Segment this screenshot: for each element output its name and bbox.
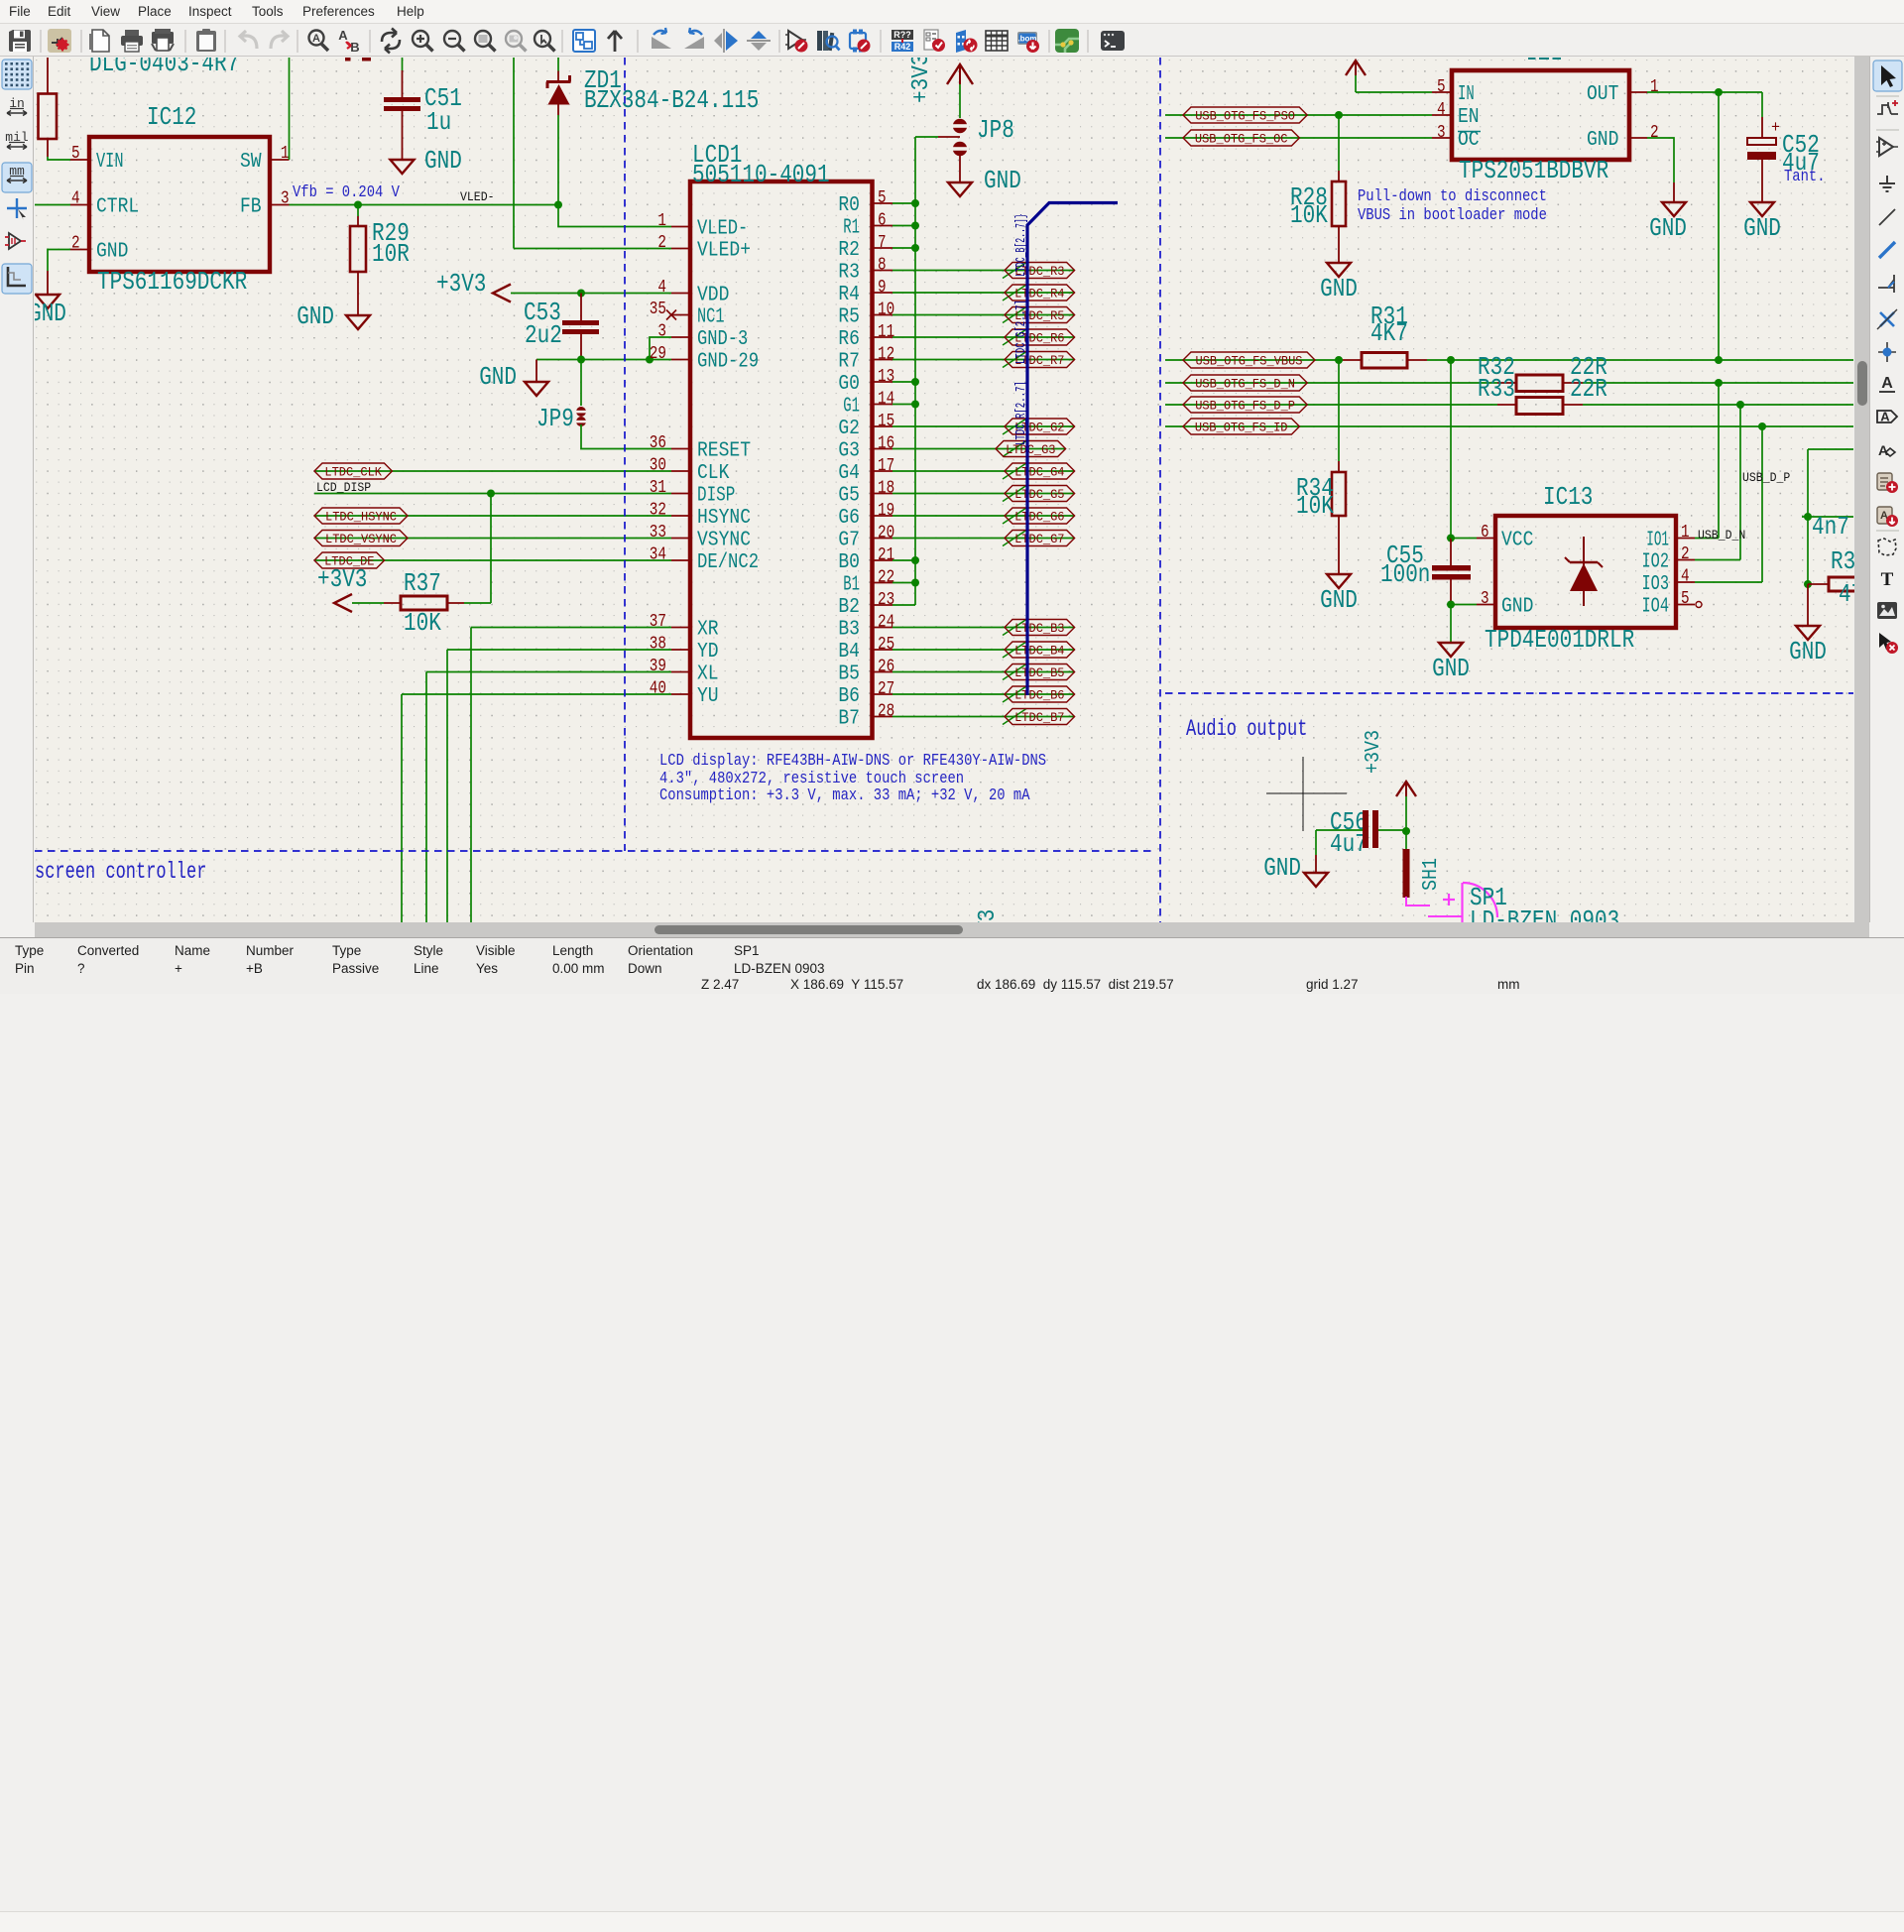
svg-text:LTDC_B4: LTDC_B4: [1014, 644, 1065, 659]
svg-text:GND: GND: [1789, 637, 1827, 666]
svg-text:GND: GND: [1320, 274, 1358, 303]
svg-text:22R: 22R: [1570, 374, 1607, 404]
svg-text:R4: R4: [838, 284, 860, 306]
svg-text:LTDC_B7: LTDC_B7: [1014, 710, 1064, 725]
svg-text:+3V3: +3V3: [908, 58, 935, 103]
svg-text:20: 20: [878, 524, 894, 543]
svg-text:11: 11: [878, 322, 894, 342]
svg-text:R7: R7: [838, 351, 860, 374]
svg-text:RESET: RESET: [697, 440, 751, 463]
svg-text:YU: YU: [697, 685, 719, 708]
svg-text:SH1: SH1: [1420, 858, 1443, 891]
svg-text:XL: XL: [697, 664, 719, 686]
svg-text:GND-29: GND-29: [697, 351, 759, 374]
svg-text:VBUS in bootloader mode: VBUS in bootloader mode: [1358, 205, 1547, 224]
svg-text:GND: GND: [479, 362, 517, 392]
svg-text:7: 7: [878, 233, 887, 253]
svg-text:18: 18: [878, 479, 894, 499]
svg-text:31: 31: [650, 478, 666, 498]
svg-text:HSYNC: HSYNC: [697, 507, 751, 530]
svg-text:13: 13: [878, 367, 894, 387]
svg-text:1: 1: [281, 144, 290, 164]
svg-text:10: 10: [878, 301, 894, 320]
svg-text:R35: R35: [1831, 546, 1854, 576]
svg-text:14: 14: [878, 390, 894, 410]
svg-text:JP9: JP9: [536, 404, 574, 433]
svg-text:CLK: CLK: [697, 462, 730, 485]
svg-text:B6: B6: [838, 685, 860, 708]
svg-text:GND: GND: [1743, 213, 1781, 243]
svg-text:R5: R5: [838, 306, 860, 329]
svg-text:USB_OTG_FS_OC: USB_OTG_FS_OC: [1195, 132, 1288, 147]
svg-text:VLED+: VLED+: [697, 240, 751, 263]
svg-text:FB: FB: [240, 196, 262, 219]
svg-text:10K: 10K: [1290, 200, 1328, 230]
svg-text:2: 2: [1650, 123, 1659, 143]
svg-text:33: 33: [650, 523, 666, 543]
svg-text:A: A: [312, 33, 320, 45]
svg-text:JP8: JP8: [977, 115, 1014, 145]
svg-text:+: +: [1771, 119, 1780, 138]
svg-text:G5: G5: [838, 485, 860, 508]
svg-text:USB_OTG_FS_D_N: USB_OTG_FS_D_N: [1195, 377, 1295, 392]
svg-text:A: A: [1880, 410, 1890, 424]
svg-text:LTDC_R4: LTDC_R4: [1014, 287, 1065, 302]
svg-text:B3: B3: [838, 619, 860, 642]
svg-text:35: 35: [650, 300, 666, 319]
svg-text:VSYNC: VSYNC: [697, 530, 751, 552]
svg-text:32: 32: [650, 501, 666, 521]
svg-text:GND: GND: [297, 302, 334, 331]
svg-text:VLED-: VLED-: [460, 190, 495, 204]
svg-text:5: 5: [1437, 77, 1446, 97]
svg-text:Consumption: +3.3 V, max. 33 m: Consumption: +3.3 V, max. 33 mA; +32 V, …: [659, 785, 1030, 804]
svg-text:Audio output: Audio output: [1186, 716, 1307, 742]
svg-text:10K: 10K: [404, 608, 441, 638]
svg-text:6: 6: [878, 211, 887, 231]
svg-text:R6: R6: [838, 328, 860, 351]
svg-text:4n7: 4n7: [1812, 512, 1849, 542]
svg-text:XR: XR: [697, 619, 719, 642]
svg-text:A: A: [1881, 375, 1893, 392]
svg-text:LTDC_G[2..7]: LTDC_G[2..7]: [1014, 300, 1029, 364]
svg-text:B2: B2: [838, 596, 860, 619]
svg-text:LTDC_B[2..7]}: LTDC_B[2..7]}: [1014, 213, 1029, 277]
svg-text:17: 17: [878, 456, 894, 476]
svg-text:BZX384-B24.115: BZX384-B24.115: [584, 85, 759, 115]
svg-text:+3V3: +3V3: [317, 564, 367, 594]
svg-text:B5: B5: [838, 664, 860, 686]
svg-text:DISP: DISP: [697, 485, 735, 508]
svg-text:LTDC_G5: LTDC_G5: [1014, 487, 1064, 502]
svg-text:IO4: IO4: [1642, 596, 1670, 619]
svg-text:4: 4: [657, 278, 666, 298]
svg-text:36: 36: [650, 433, 666, 453]
svg-text:1: 1: [1650, 77, 1659, 97]
svg-text:LCD display: RFE43BH-AIW-DNS o: LCD display: RFE43BH-AIW-DNS or RFE430Y-…: [659, 751, 1046, 770]
svg-text:R??: R??: [893, 30, 911, 40]
svg-text:GND: GND: [96, 241, 128, 264]
svg-text:8: 8: [878, 256, 887, 276]
svg-text:GND: GND: [984, 166, 1021, 195]
svg-text:37: 37: [650, 612, 666, 632]
svg-text:R0: R0: [838, 194, 860, 217]
svg-text:USB_OTG_FS_VBUS: USB_OTG_FS_VBUS: [1196, 354, 1303, 369]
svg-text:USB_D_P: USB_D_P: [1742, 471, 1790, 485]
svg-text:GND: GND: [1320, 585, 1358, 615]
svg-text:A: A: [338, 28, 348, 43]
svg-text:G4: G4: [838, 462, 860, 485]
svg-text:OC: OC: [1458, 129, 1480, 152]
svg-text:R37: R37: [404, 568, 441, 598]
svg-text:LTDC_B3: LTDC_B3: [1014, 621, 1064, 636]
svg-text:4K7: 4K7: [1370, 318, 1408, 348]
svg-text:USB_OTG_FS_PSO: USB_OTG_FS_PSO: [1195, 109, 1295, 124]
svg-text:SW: SW: [240, 151, 262, 174]
svg-text:R2: R2: [838, 239, 860, 262]
svg-text:12: 12: [878, 345, 894, 365]
svg-text:Vfb = 0.204 V: Vfb = 0.204 V: [293, 182, 400, 201]
svg-text:4u7: 4u7: [1330, 829, 1368, 859]
svg-text:LTDC_VSYNC: LTDC_VSYNC: [325, 532, 397, 546]
svg-text:6: 6: [1481, 523, 1489, 543]
svg-text:LTDC_G6: LTDC_G6: [1014, 510, 1064, 525]
svg-text:OUT: OUT: [1587, 83, 1618, 106]
svg-text:VDD: VDD: [697, 285, 729, 307]
svg-text:B: B: [350, 40, 359, 55]
svg-text:LTDC_B5: LTDC_B5: [1014, 665, 1064, 680]
svg-text:G3: G3: [838, 440, 860, 463]
svg-text:23: 23: [878, 590, 894, 610]
svg-text:LTDC_G4: LTDC_G4: [1014, 465, 1065, 480]
svg-text:VCC: VCC: [1501, 530, 1533, 552]
svg-text:16: 16: [878, 434, 894, 454]
svg-text:5: 5: [71, 144, 80, 164]
svg-text:GND: GND: [35, 299, 66, 328]
svg-text:29: 29: [650, 344, 666, 364]
svg-text:38: 38: [650, 635, 666, 655]
svg-text:GND: GND: [1501, 596, 1533, 619]
svg-text:GND: GND: [1587, 129, 1618, 152]
svg-text:10R: 10R: [372, 239, 410, 269]
svg-text:VLED-: VLED-: [697, 218, 748, 241]
svg-text:NC1: NC1: [697, 306, 725, 329]
svg-text:G0: G0: [838, 373, 860, 396]
svg-text:40: 40: [650, 679, 666, 699]
svg-text:DLG-0403-4R7: DLG-0403-4R7: [89, 58, 239, 78]
svg-text:B0: B0: [838, 551, 860, 574]
svg-text:3: 3: [1437, 123, 1446, 143]
svg-text:39: 39: [650, 657, 666, 676]
svg-text:2u2: 2u2: [525, 320, 562, 350]
svg-text:CTRL: CTRL: [96, 196, 139, 219]
svg-text:GND: GND: [1649, 213, 1687, 243]
svg-text:R1: R1: [843, 217, 860, 240]
svg-text:G1: G1: [843, 396, 860, 419]
svg-text:R42: R42: [894, 42, 911, 52]
svg-text:GND-3: GND-3: [697, 328, 748, 351]
svg-text:4: 4: [1681, 567, 1690, 587]
svg-text:28: 28: [878, 702, 894, 722]
svg-text:2: 2: [657, 233, 666, 253]
svg-text:1: 1: [1681, 523, 1690, 543]
svg-text:TPS61169DCKR: TPS61169DCKR: [97, 267, 247, 297]
svg-text:3: 3: [657, 322, 666, 342]
svg-text:2: 2: [71, 234, 80, 254]
svg-text:B7: B7: [838, 708, 860, 731]
svg-text:R3: R3: [838, 262, 860, 285]
svg-text:3: 3: [281, 189, 290, 209]
svg-text:T: T: [1881, 569, 1894, 590]
svg-text:LTDC_B6: LTDC_B6: [1014, 688, 1064, 703]
svg-text:10K: 10K: [1296, 491, 1334, 521]
svg-text:DE/NC2: DE/NC2: [697, 551, 759, 574]
svg-text:IO2: IO2: [1642, 551, 1670, 574]
svg-text:+3V3: +3V3: [436, 269, 486, 299]
svg-text:EN: EN: [1458, 106, 1480, 129]
svg-text:5: 5: [878, 188, 887, 208]
svg-text:LD-BZEN 0903: LD-BZEN 0903: [1470, 906, 1619, 923]
svg-text:G6: G6: [838, 507, 860, 530]
svg-text:22: 22: [878, 568, 894, 588]
svg-text:G2: G2: [838, 418, 860, 440]
svg-text:USB_OTG_FS_ID: USB_OTG_FS_ID: [1195, 421, 1288, 435]
svg-text:LTDC_R[2..7]: LTDC_R[2..7]: [1014, 381, 1029, 445]
svg-text:1: 1: [657, 211, 666, 231]
svg-text:15: 15: [878, 412, 894, 431]
svg-text:TPD4E001DRLR: TPD4E001DRLR: [1485, 625, 1634, 655]
svg-text:Pull-down to disconnect: Pull-down to disconnect: [1358, 186, 1547, 205]
svg-text:USB_D_N: USB_D_N: [1698, 529, 1745, 543]
svg-text:YD: YD: [697, 641, 719, 664]
svg-text:4: 4: [71, 189, 80, 209]
svg-text:IC12: IC12: [147, 102, 196, 132]
svg-text:5: 5: [1681, 589, 1690, 609]
svg-text:9: 9: [878, 278, 887, 298]
svg-text:TPS2051BDBVR: TPS2051BDBVR: [1459, 156, 1608, 185]
svg-text:GND: GND: [1432, 654, 1470, 683]
svg-text:505110-4091: 505110-4091: [692, 160, 830, 189]
svg-text:30: 30: [650, 456, 666, 476]
svg-text:A: A: [1878, 442, 1888, 458]
svg-text:47: 47: [1839, 579, 1854, 609]
svg-text:100n: 100n: [1380, 559, 1430, 589]
svg-text:B1: B1: [843, 574, 860, 597]
svg-text:G7: G7: [838, 530, 860, 552]
svg-text:IC13: IC13: [1543, 482, 1593, 512]
svg-text:LTDC_G3: LTDC_G3: [1006, 442, 1055, 457]
svg-text:B4: B4: [838, 641, 860, 664]
svg-text:3: 3: [1481, 589, 1489, 609]
svg-text:LTDC_CLK: LTDC_CLK: [324, 465, 382, 480]
svg-text:2: 2: [1681, 544, 1690, 564]
svg-text:24: 24: [878, 613, 894, 633]
svg-text:34: 34: [650, 545, 666, 565]
svg-text:IN: IN: [1458, 83, 1475, 106]
svg-text:USB_OTG_FS_D_P: USB_OTG_FS_D_P: [1195, 399, 1295, 414]
svg-text:LTDC_G7: LTDC_G7: [1014, 532, 1064, 546]
svg-text:VIN: VIN: [96, 151, 124, 174]
svg-text:+3V3: +3V3: [975, 909, 1002, 923]
svg-text:4: 4: [1437, 100, 1446, 120]
svg-text:25: 25: [878, 635, 894, 655]
svg-text:R33: R33: [1478, 374, 1515, 404]
svg-text:Tant.: Tant.: [1784, 167, 1826, 185]
svg-text:GND: GND: [424, 146, 462, 176]
svg-text:1u: 1u: [426, 107, 451, 137]
svg-text:21: 21: [878, 545, 894, 565]
svg-text:LTDC_HSYNC: LTDC_HSYNC: [325, 510, 397, 525]
svg-text:screen controller: screen controller: [35, 859, 206, 885]
svg-text:27: 27: [878, 679, 894, 699]
svg-text:+3V3: +3V3: [1363, 730, 1385, 774]
svg-text:26: 26: [878, 658, 894, 677]
svg-text:IO1: IO1: [1646, 530, 1669, 552]
svg-text:GND: GND: [1263, 853, 1301, 883]
svg-text:IO3: IO3: [1642, 573, 1670, 596]
svg-text:19: 19: [878, 501, 894, 521]
